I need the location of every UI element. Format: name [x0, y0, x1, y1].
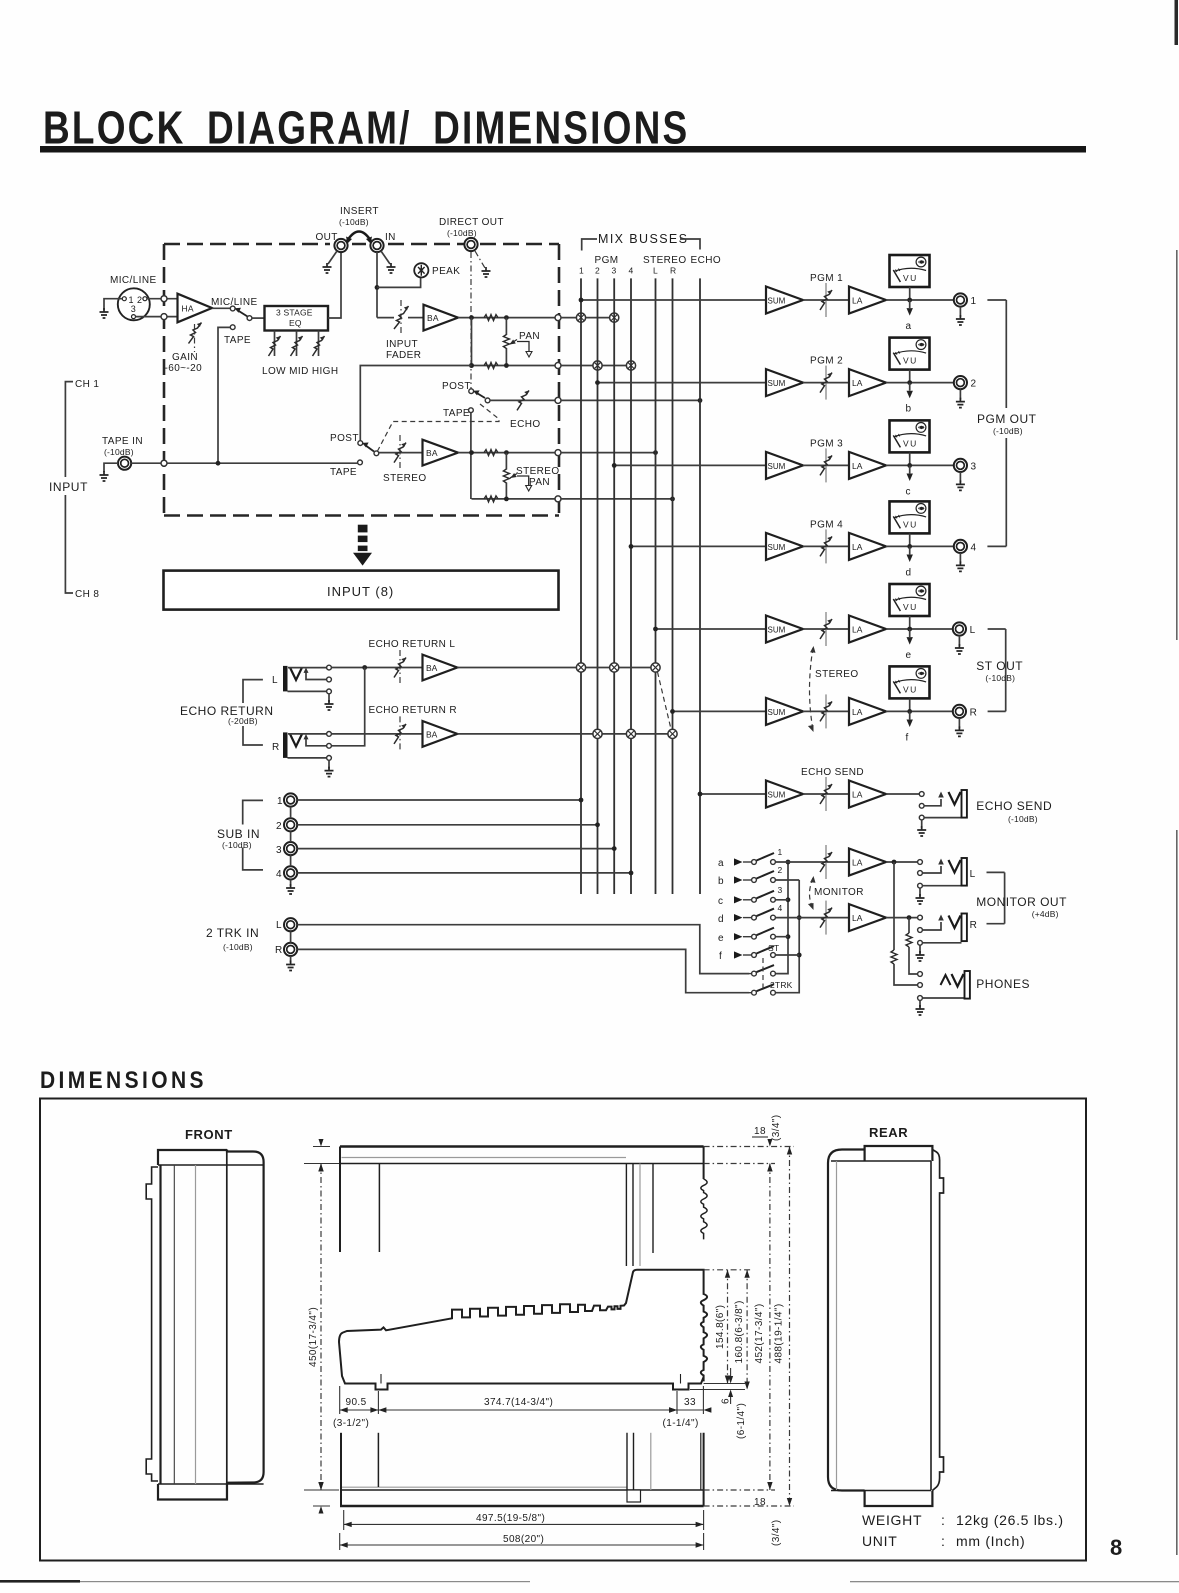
channel dashed box left edge: [163, 244, 166, 516]
junction stereo L bus: [653, 450, 658, 455]
svg-text:450(17-3/4"): 450(17-3/4"): [308, 1307, 319, 1367]
wire connector to HA (cold): [136, 316, 178, 318]
svg-text:160.8(6-3/8"): 160.8(6-3/8"): [734, 1300, 745, 1363]
pan pot resistor: [505, 318, 507, 366]
svg-text:a: a: [906, 321, 912, 332]
op-amp LA1: [849, 287, 886, 314]
top band gray fill line: [342, 1157, 627, 1159]
svg-text:LA: LA: [852, 378, 863, 388]
svg-text:3: 3: [612, 266, 617, 276]
wire EQ out up to insert out jack: [328, 252, 341, 318]
wire echo common to echo pot: [490, 399, 558, 401]
pot ST R: [825, 694, 827, 728]
wire LA3 to jack3: [886, 464, 954, 466]
svg-text:BA: BA: [427, 313, 439, 323]
bus tap pgm1: [576, 313, 585, 322]
junction L to R normal: [362, 665, 367, 670]
wire SUM E to LA E: [803, 793, 849, 795]
gang dashed 2trk levers: [762, 958, 764, 990]
mix busses bracket right: [680, 239, 700, 250]
ground connector: [100, 308, 109, 318]
input fader pot: [400, 300, 402, 336]
svg-text:e: e: [906, 650, 912, 661]
svg-text:(-10dB): (-10dB): [447, 228, 477, 238]
EQ HIGH pot: [318, 331, 320, 357]
box exit circle row1: [555, 315, 561, 321]
stereo switch lever: [365, 445, 374, 452]
box entry circle tape: [161, 460, 167, 466]
st out bracket vertical: [1005, 629, 1007, 711]
junction stereo pan top: [504, 450, 509, 455]
svg-text:3: 3: [131, 304, 136, 314]
stereo pan wiper: [510, 474, 517, 479]
svg-text:d: d: [718, 914, 724, 925]
wire IN jack down: [376, 252, 378, 318]
wire vuL stem: [909, 616, 911, 629]
wire monitor R amp to jack: [886, 917, 918, 919]
front divider line: [226, 1150, 228, 1500]
ground jack4: [959, 553, 961, 563]
jack PGM OUT 2: [954, 376, 967, 389]
front main left edge: [159, 1165, 161, 1484]
cord clamp box: [627, 1490, 641, 1502]
insert jumper arc: [347, 232, 371, 242]
wire sub1 to bus1: [297, 799, 581, 801]
dim 374.7: [676, 1391, 678, 1414]
svg-text:4: 4: [629, 266, 634, 276]
svg-text:DIRECT OUT: DIRECT OUT: [439, 217, 504, 228]
stereo R row: [472, 498, 559, 500]
rear inner right vertical: [930, 1161, 932, 1490]
echo send ground: [921, 820, 923, 828]
wire EQ to input fader: [377, 317, 394, 319]
svg-text:452(17-3/4"): 452(17-3/4"): [754, 1303, 765, 1363]
svg-text:ECHO: ECHO: [510, 419, 541, 430]
jack PGM OUT 3: [954, 459, 967, 472]
jack PGM OUT 4: [954, 540, 967, 553]
svg-text:OUT: OUT: [316, 232, 338, 243]
svg-text:R: R: [670, 266, 676, 276]
wire BA stereo out row: [458, 452, 558, 454]
wire BA L to busses: [457, 667, 655, 669]
wire tape in to switch: [131, 462, 357, 464]
svg-text:497.5(19-5/8"): 497.5(19-5/8"): [476, 1513, 545, 1524]
svg-text:LA: LA: [852, 461, 863, 471]
wire echo row to echo bus: [561, 399, 700, 401]
dim 497.5: [344, 1510, 704, 1530]
op-amp LA4: [849, 533, 886, 560]
wire R contact to pot: [332, 733, 423, 735]
wire TAPE contact down to tape in line: [218, 327, 230, 463]
op-amp BA echo return R: [423, 721, 458, 747]
echo send tip arrow: [924, 799, 941, 806]
post tap wire to lower switch: [360, 366, 471, 441]
svg-text:SUM: SUM: [768, 543, 786, 552]
bus STEREO R: [672, 278, 674, 894]
svg-text:c: c: [906, 486, 911, 497]
svg-text:MONITOR: MONITOR: [814, 887, 864, 898]
bus tap pgm4: [626, 361, 635, 370]
box pin circle top: [161, 296, 167, 302]
op-amp LA R: [849, 698, 886, 725]
left inner vertical (top): [378, 1164, 380, 1253]
svg-text:STEREO: STEREO: [815, 669, 859, 680]
op-amp LA L: [849, 616, 886, 643]
op-amp LA echo: [849, 781, 886, 808]
right inner verticals (top): [626, 1164, 633, 1267]
EQ LOW pot: [274, 331, 276, 357]
op-amp LA2: [849, 369, 886, 396]
EQ block: 3 STAGE EQ: [265, 306, 329, 331]
svg-text:TAPE: TAPE: [224, 335, 251, 346]
svg-text:SUM: SUM: [768, 708, 786, 717]
op-amp LA3: [849, 452, 886, 479]
dim 450 arrows outside: [319, 1139, 324, 1171]
direct out tap dash-dot down: [470, 252, 472, 391]
phones feed L resistor: [893, 862, 895, 950]
svg-text:e: e: [718, 933, 724, 944]
svg-text:R: R: [275, 945, 283, 956]
pot echo return L: [399, 650, 401, 684]
VU meter 4: [890, 501, 930, 533]
wire bus2 to SUM2: [598, 382, 767, 384]
svg-text:18: 18: [754, 1497, 766, 1508]
gain pot stem: [194, 324, 196, 352]
svg-text:4: 4: [276, 869, 282, 880]
bus tap L stereo: [651, 663, 660, 672]
phone jack ECHO SEND: [949, 792, 961, 805]
svg-text:(+4dB): (+4dB): [1032, 909, 1059, 919]
bus tap R pgm4: [626, 729, 635, 738]
svg-text:GAIN: GAIN: [172, 352, 198, 363]
dim 18 top: [767, 1139, 772, 1171]
svg-text:3 STAGE: 3 STAGE: [276, 308, 313, 318]
junction phones R: [907, 915, 912, 920]
svg-text:BA: BA: [426, 448, 438, 458]
svg-text:3: 3: [971, 461, 977, 472]
pot PGM2: [825, 366, 827, 400]
svg-text:f: f: [719, 951, 722, 962]
svg-text:d: d: [906, 567, 912, 578]
wire 2trk L to monitor switch: [297, 925, 749, 974]
svg-text:TAPE: TAPE: [330, 467, 357, 478]
svg-text:ECHO SEND: ECHO SEND: [801, 767, 864, 778]
wire sub3 to bus3: [297, 848, 614, 850]
wire bus3 to SUM3: [614, 464, 766, 466]
jack PGM OUT 1: [954, 293, 967, 306]
svg-text:4: 4: [971, 542, 977, 553]
svg-text:PAN: PAN: [529, 477, 550, 488]
normal wire L to R tip: [332, 668, 365, 746]
dim 452: [704, 1164, 775, 1491]
dim 488: [704, 1147, 794, 1507]
svg-text:IN: IN: [385, 232, 396, 243]
wire busR to SUM R: [673, 710, 767, 712]
bus ECHO: [699, 278, 701, 894]
pot PGM4: [825, 529, 827, 563]
echo return R jack tip V: [290, 734, 302, 747]
svg-text:STEREO: STEREO: [643, 255, 687, 266]
svg-text:FADER: FADER: [386, 350, 421, 361]
wire fader to BA: [408, 317, 423, 319]
bus PGM3: [613, 278, 615, 894]
svg-text:90.5: 90.5: [346, 1397, 367, 1408]
svg-text:L: L: [653, 266, 658, 276]
svg-text:INSERT: INSERT: [340, 206, 379, 217]
svg-text:(-10dB): (-10dB): [222, 840, 252, 850]
pot PGM1: [825, 283, 827, 317]
gain pot arrow through HA: [189, 323, 202, 344]
svg-text:2: 2: [276, 821, 282, 832]
monitor L sleeve wire: [923, 885, 962, 887]
wire switch common to EQ: [252, 317, 265, 319]
svg-text:1: 1: [579, 266, 584, 276]
svg-text:8: 8: [1110, 1535, 1122, 1560]
svg-text:PGM 3: PGM 3: [810, 438, 843, 449]
resistor stereo L: [484, 450, 498, 456]
gang dashed STEREO masters: [810, 648, 814, 730]
op-amp SUM3: [766, 452, 803, 479]
ground jack3: [959, 472, 961, 482]
svg-text:PEAK: PEAK: [432, 266, 460, 277]
svg-text:TAPE: TAPE: [443, 408, 470, 419]
svg-text:UNIT:mm (Inch): UNIT:mm (Inch): [862, 1533, 1025, 1549]
jack ST OUT L: [953, 622, 966, 635]
wire stereo R row to bus: [561, 498, 673, 500]
sub jack chain wires: [290, 807, 292, 867]
wire SUM1 to LA1: [803, 299, 849, 301]
svg-text:LA: LA: [852, 542, 863, 552]
DIMENSIONS heading: [40, 1067, 207, 1093]
svg-text:SUM: SUM: [768, 791, 786, 800]
wire SUM3 to LA3: [803, 464, 849, 466]
svg-text:LOW MID HIGH: LOW MID HIGH: [262, 366, 338, 377]
gang dashed echo/stereo switch: [378, 404, 500, 451]
wire BA R to busses: [457, 733, 672, 735]
arrow to monitor point a: [909, 300, 911, 308]
svg-text:STEREO: STEREO: [516, 466, 560, 477]
svg-text:(-10dB): (-10dB): [104, 447, 134, 457]
svg-text:L: L: [970, 869, 976, 880]
ground sub4: [290, 880, 292, 887]
monitor R jack contacts: [918, 915, 923, 920]
op-amp BA (stereo): [423, 440, 459, 466]
pan wiper arrow: [510, 340, 517, 345]
op-amp SUM L: [766, 616, 803, 643]
arrow to monitor point e: [909, 629, 911, 637]
stereo pan resistor: [505, 453, 507, 499]
svg-text:INPUT: INPUT: [49, 480, 88, 494]
svg-text:EQ: EQ: [289, 318, 302, 328]
svg-text:PGM 4: PGM 4: [810, 519, 843, 530]
dim 508: [340, 1533, 704, 1550]
wire vu1 stem: [909, 287, 911, 300]
echo return L jack sleeve bar: [283, 666, 288, 692]
bus STEREO L: [655, 278, 657, 894]
phones feed R resistor: [908, 918, 910, 933]
channel dashed box top edge: [164, 243, 559, 246]
bus PGM4: [630, 278, 632, 894]
monitor L jack contacts: [918, 860, 923, 865]
phones sleeve wire: [923, 997, 965, 999]
wire SUM L to LA L: [803, 628, 849, 630]
wire bus4 to SUM4: [631, 545, 766, 547]
phones ground: [919, 1001, 921, 1008]
dim 160.8: [746, 1270, 748, 1390]
monitor L ground: [919, 889, 921, 897]
wire echo bus to SUM E: [700, 793, 766, 795]
switch lever: [238, 311, 248, 317]
bus tap L pgm3: [610, 663, 619, 672]
arrow to monitor point d: [909, 546, 911, 554]
echo switch TAPE contact: [469, 408, 474, 413]
ground jackL: [958, 636, 960, 646]
rear horizontal joins: [831, 1161, 931, 1491]
front outer left panel: [146, 1167, 158, 1481]
wire LA R to jack R: [886, 710, 954, 712]
svg-text:POST: POST: [330, 433, 359, 444]
svg-text:508(20"): 508(20"): [503, 1534, 544, 1545]
switch row d: [734, 909, 775, 922]
gang dashed MONITOR masters: [810, 878, 814, 908]
svg-text:TAPE IN: TAPE IN: [102, 436, 143, 447]
svg-text:INPUT (8): INPUT (8): [327, 584, 394, 599]
svg-text:LA: LA: [852, 858, 863, 868]
svg-text:ECHO: ECHO: [691, 255, 722, 266]
echo send jack contact top: [919, 792, 924, 797]
switch contact MIC/LINE: [230, 306, 235, 311]
svg-text:(-20dB): (-20dB): [228, 716, 258, 726]
svg-text:2: 2: [971, 379, 977, 390]
echo switch POST contact: [469, 389, 474, 394]
op-amp SUM2: [766, 369, 803, 396]
wire HA out to switch: [212, 307, 230, 309]
svg-text:a: a: [718, 858, 724, 869]
bottom scan line: [0, 1580, 80, 1583]
ground jack2: [959, 389, 961, 399]
pot PGM3: [825, 448, 827, 482]
wire vu2 stem: [909, 370, 911, 383]
svg-text:ECHO RETURN L: ECHO RETURN L: [369, 639, 456, 650]
wire LA1 to jack1: [886, 299, 954, 301]
svg-text:33: 33: [684, 1397, 696, 1408]
pgm out bracket top stub: [987, 299, 1006, 301]
svg-text:SUM: SUM: [768, 379, 786, 388]
channel dashed box right edge: [558, 244, 561, 516]
box pin circle bottom: [161, 314, 167, 320]
bottom band gray fill line: [342, 1486, 627, 1488]
stereo switch TAPE contact: [358, 460, 363, 465]
echo send jack contact sleeve: [919, 815, 924, 820]
pot echo return R: [399, 716, 401, 750]
svg-text:MIX BUSSES: MIX BUSSES: [598, 232, 688, 246]
svg-text:REAR: REAR: [869, 1125, 908, 1140]
right inner verticals (bottom): [627, 1433, 634, 1490]
wire to PEAK lamp: [377, 277, 421, 287]
rear bottom cap: [865, 1491, 933, 1507]
wire tape jack to ground: [104, 463, 118, 472]
dimensions outer box: [40, 1099, 1086, 1561]
wire row1 to busses: [561, 317, 617, 319]
top band line: [340, 1163, 704, 1165]
switch row f: [734, 946, 775, 959]
op-amp SUM4: [766, 533, 803, 560]
monitor select bus A: [776, 862, 788, 974]
svg-text:ECHO SEND: ECHO SEND: [976, 799, 1052, 813]
wire SUM2 to LA2: [803, 382, 849, 384]
monitor R ground: [919, 946, 921, 954]
dim 90.5: [340, 1386, 379, 1414]
pot monitor R: [825, 901, 827, 935]
monitor select bus B: [776, 880, 799, 993]
wire L contact to pot: [332, 667, 423, 669]
junction pan top: [504, 315, 509, 320]
mix busses bracket left: [582, 239, 597, 251]
switch row 2trk L: [749, 965, 775, 976]
title: BLOCK DIAGRAM/ DIMENSIONS: [43, 102, 689, 154]
insert OUT jack: [334, 239, 347, 252]
wire bus B to monitor R amp: [799, 917, 849, 919]
junction tape branch: [216, 461, 221, 466]
wire IN jack to ground: [381, 251, 390, 264]
svg-text:L: L: [272, 675, 278, 686]
junction phones L: [892, 860, 897, 865]
monitor out bracket vertical: [1004, 872, 1006, 923]
junction to peak: [375, 285, 380, 290]
dim 33: [702, 1386, 704, 1414]
svg-text:R: R: [272, 742, 280, 753]
echo send jack contact mid: [919, 803, 924, 808]
side profile of mixer: [339, 1270, 707, 1390]
ground 2trk R: [290, 956, 292, 963]
jack 2TRK R: [284, 943, 297, 956]
monitor out bracket bottom stub: [987, 923, 1005, 925]
svg-text:FRONT: FRONT: [185, 1127, 233, 1142]
svg-text:(6-1/4"): (6-1/4"): [736, 1403, 747, 1439]
front top cap: [158, 1150, 227, 1165]
repeat dashed arrow: [358, 525, 368, 533]
echo switch lever: [476, 393, 485, 399]
pgm out bracket bottom stub: [987, 545, 1006, 547]
junction BA out: [469, 315, 474, 320]
svg-text:BLOCK DIAGRAM/ DIMENSIONS: BLOCK DIAGRAM/ DIMENSIONS: [43, 102, 689, 154]
svg-text:INPUT: INPUT: [386, 339, 418, 350]
svg-text:18: 18: [754, 1126, 766, 1137]
sub in bracket: [243, 800, 263, 870]
TAPE IN jack: [118, 457, 131, 470]
jack SUB IN 3: [284, 842, 297, 855]
wire vu3 stem: [909, 452, 911, 465]
arrow to monitor point c: [909, 465, 911, 473]
VU meter 1: [890, 255, 930, 287]
2trk jack chain wire: [290, 931, 292, 943]
dim 154.8: [704, 1269, 752, 1271]
arrow to monitor point b: [909, 383, 911, 391]
wire monitor L amp to jack: [886, 861, 918, 863]
svg-text:3: 3: [276, 845, 282, 856]
VU meter L: [890, 584, 930, 616]
svg-text:LA: LA: [852, 790, 863, 800]
front bottom cap: [158, 1483, 227, 1500]
left inner vertical (bottom): [377, 1433, 379, 1487]
rear right edge: [932, 1150, 943, 1491]
top view top section outline: [340, 1145, 704, 1148]
svg-text:BA: BA: [426, 729, 438, 739]
switch row c: [734, 891, 775, 904]
svg-text:ST: ST: [768, 943, 779, 953]
ground jackR: [958, 718, 960, 728]
op-amp SUM1: [766, 287, 803, 314]
